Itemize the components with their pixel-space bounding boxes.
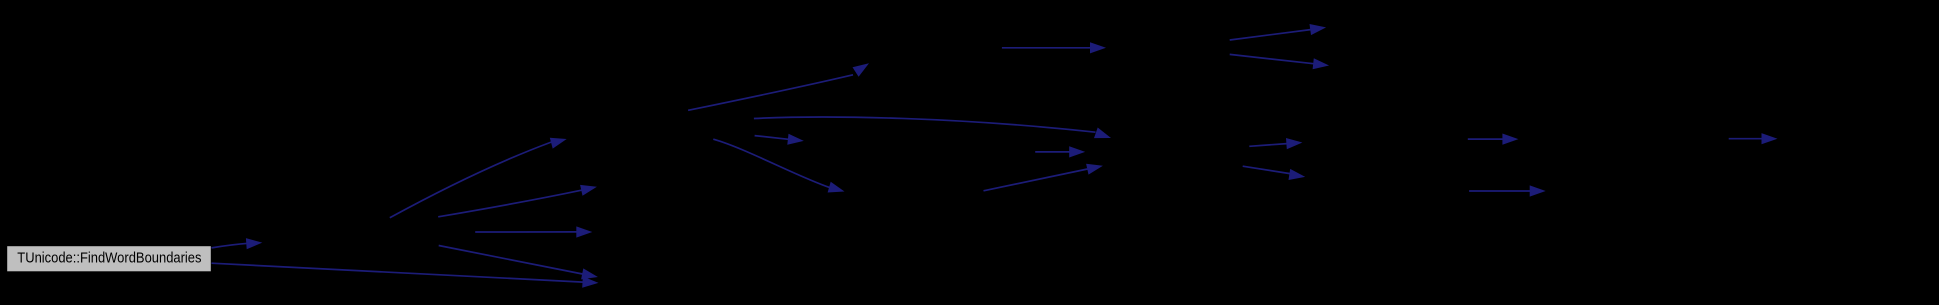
edge node14->node16 (far right) <box>1729 133 1778 144</box>
edge node9->node12 <box>1249 138 1302 149</box>
edge node12->node14 <box>1468 134 1519 145</box>
edge node3->node7 (up-right) <box>688 63 869 110</box>
edge node3->node8b (short arrow) <box>755 134 804 145</box>
edge node2->node3 (steep up curve) <box>390 138 567 218</box>
node TUnicode::FindWordBoundaries (grey box) <box>7 246 212 273</box>
edge node3->node8 (s-curve down) <box>713 139 844 192</box>
edge node7->node9 (top horizontal) <box>1002 42 1106 53</box>
edge node2->node5 (horizontal) <box>475 226 592 237</box>
edge node9->node13 <box>1243 166 1306 180</box>
edge node9->node11 (down fan) <box>1230 54 1329 69</box>
edge main->node6 (long bottom edge) <box>212 263 599 288</box>
edge node8->node9 (short horizontal) <box>1035 146 1085 157</box>
edge node9->node10 (up fan) <box>1230 24 1326 40</box>
edge node8b->node9 (up-right) <box>984 164 1103 191</box>
edge node2->node4 <box>438 185 597 217</box>
edge node13->node15 <box>1469 185 1546 196</box>
svg-text:TUnicode::FindWordBoundaries: TUnicode::FindWordBoundaries <box>17 250 201 267</box>
edge main->node2 (short arrow from grey node) <box>212 238 263 249</box>
edge node3->node9 (long arc) <box>754 117 1111 138</box>
edge node2->node6 (down-right) <box>439 246 598 280</box>
